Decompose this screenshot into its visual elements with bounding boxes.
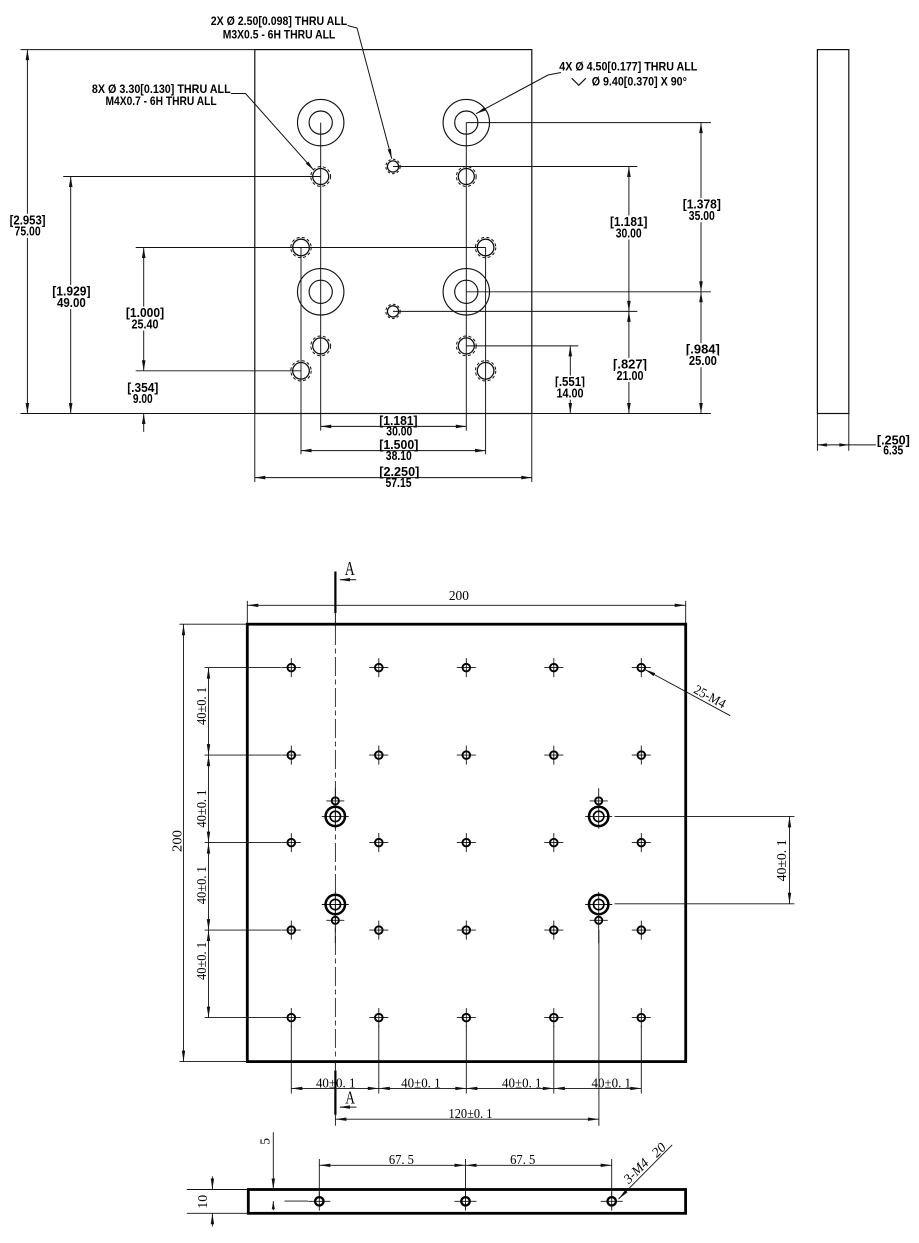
- section arrow bottom: [340, 1106, 356, 1108]
- svg-text:25.00: 25.00: [689, 354, 717, 368]
- M4 grid hole r4c3: [457, 929, 476, 931]
- M4 grid hole r3c4: [544, 842, 563, 844]
- M4 tapped hole 5 (3.30 thru): [293, 239, 310, 256]
- M4 grid hole r5c4: [544, 1017, 563, 1019]
- svg-text:40±0. 1: 40±0. 1: [194, 790, 209, 828]
- section M4 hole 3: [601, 1200, 623, 1202]
- dim [.827] 21.00: [628, 311, 630, 413]
- svg-text:40±0. 1: 40±0. 1: [194, 866, 209, 904]
- dim [1.181] 30.00 bottom: [321, 425, 467, 427]
- M4 grid hole r3c1: [282, 842, 301, 844]
- dim chain 40 left: [205, 667, 282, 669]
- side view extension lines: [816, 414, 818, 451]
- M4 tapped hole 6 (3.30 thru): [477, 239, 494, 256]
- svg-text:40±0. 1: 40±0. 1: [401, 1076, 441, 1091]
- extension line row D1: [136, 247, 486, 249]
- M4 grid hole r1c5: [632, 667, 651, 669]
- M4 tapped hole 8 (3.30 thru): [477, 363, 494, 380]
- svg-text:40±0. 1: 40±0. 1: [774, 839, 789, 881]
- svg-text:67. 5: 67. 5: [510, 1152, 535, 1167]
- M4 grid hole r2c2: [369, 754, 388, 756]
- svg-text:25.40: 25.40: [132, 317, 159, 331]
- vertical centerline right hole pair top: [598, 788, 600, 828]
- centerline column B: [465, 123, 467, 431]
- M3 tapped hole 2 (2.50 thru): [387, 306, 398, 317]
- counterbore hole CB1 (4.50 thru, 9.40 csk): [298, 99, 344, 145]
- counterbored hole B2: [585, 815, 612, 817]
- M4 tapped hole 2 (3.30 thru): [458, 169, 474, 185]
- note 25-M4 leader: [645, 669, 731, 715]
- note 3-M4 depth 20 leader: [619, 1145, 673, 1199]
- svg-text:75.00: 75.00: [15, 225, 41, 239]
- M4 tapped hole 1 (3.30 thru): [313, 169, 329, 185]
- extension line row M3-1 right: [393, 166, 637, 168]
- svg-text:40±0. 1: 40±0. 1: [194, 942, 209, 980]
- large plate outline (200x200): [247, 624, 685, 1061]
- svg-text:40±0. 1: 40±0. 1: [502, 1076, 542, 1091]
- svg-text:30.00: 30.00: [616, 226, 642, 240]
- counterbored hole B4: [585, 904, 612, 906]
- M4 grid hole r1c4: [544, 667, 563, 669]
- extension line plate left edge down: [254, 414, 256, 483]
- extension line bottom edge left: [21, 413, 255, 415]
- svg-text:2X Ø 2.50[0.098] THRU ALL: 2X Ø 2.50[0.098] THRU ALL: [211, 14, 347, 28]
- dim [1.929] 49.00: [70, 177, 72, 414]
- M4 grid hole r4c1: [282, 929, 301, 931]
- svg-text:5: 5: [257, 1138, 272, 1145]
- dim 200 top: [246, 601, 248, 623]
- centerline column A: [320, 123, 322, 431]
- section M4 hole 1: [308, 1200, 330, 1202]
- svg-text:4X Ø 4.50[0.177] THRU ALL: 4X Ø 4.50[0.177] THRU ALL: [559, 59, 697, 73]
- countersink symbol: [572, 78, 586, 85]
- dim 5 hole offset: [272, 1132, 274, 1189]
- M4 grid hole r4c4: [544, 929, 563, 931]
- section line A-A: [334, 572, 336, 614]
- M4 grid hole r5c5: [632, 1017, 651, 1019]
- M4 tapped hole 3 (3.30 thru): [313, 338, 329, 354]
- M4 grid hole r5c3: [457, 1017, 476, 1019]
- svg-text:40±0. 1: 40±0. 1: [316, 1076, 356, 1091]
- M4 grid hole r3c5: [632, 842, 651, 844]
- M3 tapped hole 1 (2.50 thru): [387, 161, 398, 172]
- extension line row CB1 right: [466, 122, 711, 124]
- dim 40+-0.1 right: [615, 815, 795, 817]
- counterbored hole B3: [322, 904, 349, 906]
- dim [2.250] 57.15: [255, 477, 532, 479]
- dim [.551] 14.00: [569, 346, 571, 414]
- svg-text:40±0. 1: 40±0. 1: [194, 687, 209, 725]
- section M4 hole 2: [455, 1200, 477, 1202]
- counterbore hole CB2 (4.50 thru, 9.40 csk): [443, 99, 489, 145]
- extension line bottom edge right: [532, 413, 711, 415]
- M4 grid hole r2c4: [544, 754, 563, 756]
- svg-text:30.00: 30.00: [386, 425, 412, 439]
- vertical centerline left hole pair bottom: [334, 892, 336, 943]
- counterbore hole CB3 (4.50 thru, 9.40 csk): [298, 269, 344, 315]
- M4 grid hole r2c5: [632, 754, 651, 756]
- svg-text:120±0. 1: 120±0. 1: [449, 1106, 493, 1121]
- dim [1.378] 35.00: [700, 123, 702, 292]
- dim [.250] 6.35 thickness: [817, 444, 848, 446]
- svg-text:A: A: [345, 1088, 355, 1108]
- svg-text:Ø 9.40[0.370] X 90°: Ø 9.40[0.370] X 90°: [592, 75, 687, 89]
- front view plate outline: [255, 50, 532, 414]
- section view outline: [248, 1190, 685, 1214]
- extension line row T2 right: [466, 345, 578, 347]
- svg-text:40±0. 1: 40±0. 1: [592, 1076, 632, 1091]
- dim 200 left: [179, 623, 246, 625]
- vertical centerline right hole pair bottom: [598, 892, 600, 943]
- M4 grid hole r3c2: [369, 842, 388, 844]
- dim [1.500] 38.10: [301, 450, 486, 452]
- M4 grid hole r4c2: [369, 929, 388, 931]
- centerline column A-prime: [300, 248, 302, 455]
- small hole near B2: [590, 800, 608, 802]
- note 4X 4.50 THRU / csk 9.40 leader: [476, 73, 561, 114]
- svg-text:38.10: 38.10: [386, 449, 412, 463]
- dim [2.953] 75.00 overall height: [26, 50, 28, 414]
- svg-text:6.35: 6.35: [883, 443, 903, 457]
- svg-text:9.00: 9.00: [133, 392, 153, 406]
- svg-text:A: A: [345, 558, 355, 580]
- note 8X 3.30 THRU / M4X0.7 leader: [231, 94, 314, 171]
- dim [.354] 9.00: [143, 414, 145, 432]
- dim 120+-0.1: [598, 930, 600, 1126]
- extension line row CB2 right: [466, 291, 711, 293]
- side view plate outline: [817, 50, 848, 414]
- svg-text:M4X0.7 - 6H THRU ALL: M4X0.7 - 6H THRU ALL: [106, 94, 217, 108]
- vertical centerline left hole pair top: [334, 788, 336, 828]
- dim [1.181] 30.00 right: [628, 167, 630, 312]
- dim [1.000] 25.40: [143, 248, 145, 371]
- svg-text:57.15: 57.15: [386, 476, 412, 490]
- section arrow top: [340, 579, 356, 581]
- small hole near B3: [326, 919, 344, 921]
- M4 grid hole r3c3: [457, 842, 476, 844]
- M4 tapped hole 7 (3.30 thru): [293, 363, 310, 380]
- svg-text:67. 5: 67. 5: [389, 1152, 414, 1167]
- svg-text:14.00: 14.00: [557, 387, 584, 401]
- extension line plate right edge down: [531, 414, 533, 483]
- M4 grid hole r5c1: [282, 1017, 301, 1019]
- M4 grid hole r5c2: [369, 1017, 388, 1019]
- centerline column B-prime: [485, 248, 487, 455]
- dim [.984] 25.00: [700, 292, 702, 414]
- M4 grid hole r1c2: [369, 667, 388, 669]
- svg-text:35.00: 35.00: [689, 209, 715, 223]
- M4 tapped hole 4 (3.30 thru): [458, 338, 474, 354]
- M4 grid hole r1c3: [457, 667, 476, 669]
- dim chain 40 bottom: [290, 1026, 292, 1094]
- M4 grid hole r1c1: [282, 667, 301, 669]
- extension line row T1 left: [63, 176, 321, 178]
- dim 10 thickness: [187, 1189, 249, 1191]
- svg-text:49.00: 49.00: [57, 296, 86, 310]
- counterbore hole CB4 (4.50 thru, 9.40 csk): [443, 269, 489, 315]
- small hole near B1: [326, 800, 344, 802]
- svg-text:200: 200: [170, 830, 185, 852]
- M4 grid hole r2c1: [282, 754, 301, 756]
- M4 grid hole r2c3: [457, 754, 476, 756]
- svg-text:M3X0.5 - 6H THRU ALL: M3X0.5 - 6H THRU ALL: [223, 27, 336, 41]
- svg-text:200: 200: [449, 589, 469, 604]
- extension line top edge left: [21, 49, 255, 51]
- note 2X 2.50 THRU / M3X0.5 leader: [348, 26, 392, 159]
- svg-text:21.00: 21.00: [617, 369, 644, 383]
- counterbored hole B1: [322, 815, 349, 817]
- small hole near B4: [590, 919, 608, 921]
- svg-text:10: 10: [195, 1195, 210, 1209]
- extension line row D2: [136, 370, 301, 372]
- dim 67.5 chain: [318, 1159, 320, 1196]
- M4 grid hole r4c5: [632, 929, 651, 931]
- extension line row M3-2 right: [393, 310, 637, 312]
